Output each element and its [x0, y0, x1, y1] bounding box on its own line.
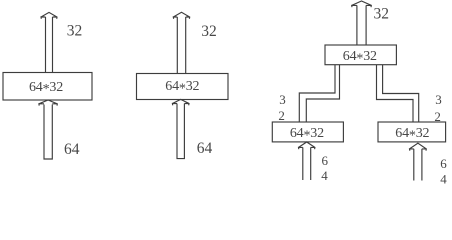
svg-text:6: 6 [322, 153, 329, 168]
svg-text:64*32: 64*32 [395, 126, 429, 143]
svg-text:32: 32 [374, 5, 390, 22]
svg-text:2: 2 [278, 108, 285, 123]
svg-text:64*32: 64*32 [290, 126, 324, 143]
svg-text:6: 6 [440, 156, 447, 171]
svg-text:64*32: 64*32 [29, 80, 63, 97]
svg-text:3: 3 [279, 92, 286, 107]
svg-text:64*32: 64*32 [165, 79, 199, 96]
svg-text:32: 32 [201, 23, 217, 40]
svg-text:32: 32 [67, 22, 83, 39]
svg-text:4: 4 [321, 168, 328, 183]
svg-text:64: 64 [197, 140, 213, 157]
svg-text:64*32: 64*32 [343, 49, 377, 66]
svg-text:64: 64 [64, 141, 80, 158]
svg-text:2: 2 [434, 109, 441, 124]
svg-text:4: 4 [440, 171, 447, 186]
svg-text:3: 3 [435, 92, 442, 107]
